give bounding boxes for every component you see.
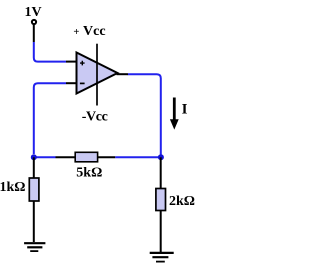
- svg-text:-Vcc: -Vcc: [82, 109, 108, 124]
- svg-text:+: +: [73, 27, 79, 38]
- svg-text:1V: 1V: [25, 5, 42, 20]
- svg-text:1kΩ: 1kΩ: [0, 180, 26, 195]
- svg-text:5kΩ: 5kΩ: [76, 166, 102, 181]
- svg-text:Vcc: Vcc: [83, 24, 106, 39]
- svg-text:2kΩ: 2kΩ: [169, 194, 195, 209]
- svg-text:I: I: [182, 101, 188, 117]
